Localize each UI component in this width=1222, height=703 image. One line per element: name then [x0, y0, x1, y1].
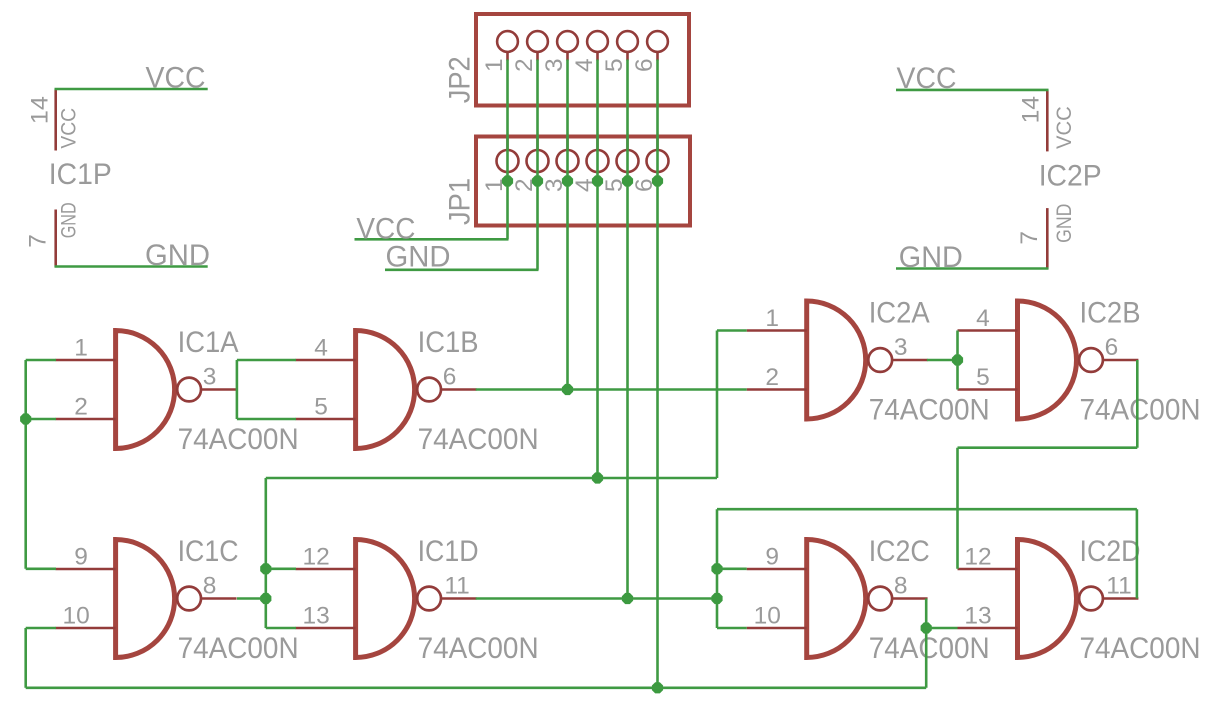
wire lower left rail vertical [24, 628, 27, 688]
svg-text:6: 6 [443, 364, 457, 391]
svg-text:7: 7 [25, 234, 52, 248]
connector JP2 pin 5 circle [617, 31, 638, 52]
junction on JP1 pin 2 [532, 175, 543, 186]
wire to IC1C pin 10 [26, 627, 56, 630]
wire IC2B output horizontal y=448 [958, 446, 1138, 449]
wire VCC net (IC1P) [55, 88, 208, 91]
svg-text:4: 4 [571, 58, 598, 72]
IC1D output bubble [417, 587, 441, 611]
junction on JP1 pin 5 [622, 175, 633, 186]
svg-text:GND: GND [1053, 204, 1076, 243]
IC1B output bubble [417, 378, 441, 402]
junction JP pin 6 on bottom net [652, 682, 663, 693]
connector JP2 pin 4 circle [587, 31, 608, 52]
junction IC2C pin 9 tap [711, 563, 722, 574]
IC1D pin 12 line [296, 568, 356, 571]
wire IC1C output lead [237, 597, 266, 600]
wire mid coupling vertical x=266 [264, 478, 267, 628]
svg-text:8: 8 [894, 573, 908, 600]
svg-text:7: 7 [1016, 231, 1043, 245]
connector JP2 pin 3 stub [566, 52, 569, 61]
wire to IC2C pin 9 [717, 567, 747, 570]
wire IC2C coupling vertical x=717 [716, 509, 719, 628]
svg-text:IC2C: IC2C [869, 535, 930, 568]
wire to IC1D pin 12 [266, 567, 296, 570]
svg-text:VCC: VCC [897, 62, 957, 95]
IC1B pin 4 line [296, 359, 356, 362]
IC1C output pin 8 line [202, 597, 237, 600]
wire IC2A pin 1 vertical [716, 331, 719, 479]
wire JP pin 2 vertical [536, 60, 539, 270]
connector JP2 pin 3 circle [557, 31, 578, 52]
junction IC1C output tap [260, 593, 271, 604]
svg-text:1: 1 [481, 58, 508, 72]
svg-text:74AC00N: 74AC00N [178, 423, 299, 456]
connector JP1 pin 3 stub [566, 139, 569, 152]
wire IC2D output vertical x=1137 [1136, 509, 1139, 598]
wire IC1D output to IC2C (long) [476, 597, 717, 600]
nand gate IC1B body [356, 331, 415, 449]
connector JP2 pin 2 circle [527, 31, 548, 52]
svg-text:3: 3 [541, 58, 568, 72]
IC1B output pin 6 line [442, 388, 477, 391]
wire VCC net (IC2P) [896, 89, 1049, 92]
nand gate IC1C body [116, 540, 175, 658]
IC1C pin 9 line [56, 568, 116, 571]
svg-text:74AC00N: 74AC00N [418, 632, 539, 665]
nand gate IC1D body [356, 540, 415, 658]
wire bottom net horizontal y=688 [26, 686, 927, 689]
connector JP2 pin 2 stub [536, 52, 539, 61]
junction on JP1 pin 3 [562, 175, 573, 186]
wire JP pin 6 vertical [656, 60, 659, 688]
svg-text:2: 2 [74, 394, 88, 421]
wire GND to JP1 pin 2 [385, 268, 539, 271]
svg-text:GND: GND [57, 202, 80, 238]
IC1B pin 5 line [296, 418, 356, 421]
connector JP2 outline [476, 14, 689, 106]
connector JP1 pin 6 circle [647, 150, 669, 172]
IC2D pin 12 line [958, 568, 1018, 571]
junction on JP1 pin 6 [652, 175, 663, 186]
svg-text:4: 4 [976, 305, 990, 332]
power symbol IC1P pin 14 (VCC) pin line [54, 89, 57, 150]
connector JP1 pin 5 stub [626, 139, 629, 152]
svg-text:74AC00N: 74AC00N [418, 423, 539, 456]
svg-text:12: 12 [964, 544, 991, 571]
svg-text:9: 9 [765, 544, 779, 571]
svg-text:IC2P: IC2P [1039, 160, 1102, 193]
connector JP1 pin 3 circle [557, 150, 579, 172]
svg-text:74AC00N: 74AC00N [869, 394, 990, 427]
connector JP2 pin 5 stub [626, 52, 629, 61]
wire to IC2A pin 1 [717, 329, 747, 332]
IC2C output bubble [868, 587, 892, 611]
junction JP pin 3 on IC1B output net [562, 384, 573, 395]
svg-text:GND: GND [899, 241, 963, 274]
svg-text:VCC: VCC [57, 108, 80, 149]
wire GND net (IC1P) [55, 265, 208, 268]
svg-text:14: 14 [27, 96, 54, 124]
junction on JP1 pin 1 [502, 175, 513, 186]
wire IC1B output to IC2A pin 2 (long) [476, 388, 747, 391]
wire IC2B output vertical x=1137 [1136, 360, 1139, 448]
power symbol IC2P pin 14 (VCC) pin line [1046, 90, 1049, 152]
wire JP pin 4 vertical [596, 60, 599, 479]
junction IC2D pin 13 tap [921, 622, 932, 633]
wire cross horizontal y=477 [266, 477, 717, 480]
connector JP2 pin 4 stub [596, 52, 599, 61]
svg-text:3: 3 [894, 334, 908, 361]
wire IC2D output horizontal y=511 [717, 508, 1137, 511]
IC2B pin 4 line [958, 329, 1018, 332]
IC1C pin 10 line [56, 627, 116, 630]
IC2A pin 1 line [747, 329, 807, 332]
svg-text:IC1A: IC1A [178, 326, 239, 359]
power symbol IC2P pin 7 (GND) pin line [1046, 208, 1049, 269]
svg-text:2: 2 [765, 364, 779, 391]
IC1A output bubble [177, 378, 201, 402]
svg-text:5: 5 [976, 364, 990, 391]
wire JP pin 3 vertical [566, 60, 569, 390]
svg-text:VCC: VCC [1053, 106, 1076, 149]
svg-text:3: 3 [203, 364, 217, 391]
svg-text:74AC00N: 74AC00N [178, 632, 299, 665]
wire GND net (IC2P) [896, 267, 1049, 270]
connector JP2 pin 1 stub [506, 52, 509, 61]
svg-text:8: 8 [203, 573, 217, 600]
IC1D output pin 11 line [442, 597, 477, 600]
svg-text:14: 14 [1018, 96, 1045, 123]
IC2B pin 5 line [958, 388, 1018, 391]
IC2D output bubble [1079, 587, 1103, 611]
wire JP pin 5 vertical [626, 60, 629, 599]
svg-text:JP1: JP1 [444, 178, 477, 225]
connector JP2 pin 1 circle [497, 31, 518, 52]
svg-text:JP2: JP2 [444, 56, 477, 103]
connector JP1 outline [476, 137, 690, 226]
svg-text:5: 5 [314, 394, 328, 421]
wire to IC1C pin 9 [26, 567, 56, 570]
nand gate IC2C body [807, 540, 866, 658]
IC2A output pin 3 line [893, 359, 928, 362]
IC2C pin 10 line [747, 627, 807, 630]
power symbol IC1P pin 7 (GND) pin line [54, 210, 57, 268]
IC2B output bubble [1079, 348, 1103, 372]
svg-text:6: 6 [1105, 334, 1119, 361]
wire VCC to JP1 pin 1 [355, 238, 509, 241]
svg-text:13: 13 [302, 603, 329, 630]
wire IC2A out vertical to IC2B inputs [956, 331, 959, 390]
connector JP1 pin 1 circle [497, 150, 519, 172]
svg-text:IC2A: IC2A [869, 297, 930, 330]
svg-text:VCC: VCC [146, 62, 206, 95]
IC2A pin 2 line [747, 388, 807, 391]
svg-text:10: 10 [754, 603, 781, 630]
svg-text:6: 6 [631, 58, 658, 72]
IC2C pin 9 line [747, 568, 807, 571]
connector JP2 pin 6 circle [647, 31, 668, 52]
connector JP2 pin 6 stub [656, 52, 659, 61]
svg-text:IC1C: IC1C [178, 535, 239, 568]
wire to IC1B pin 4 [237, 359, 296, 362]
wire to IC1A pin 2 [26, 418, 56, 421]
wire to IC2D pin 13 [926, 627, 957, 630]
IC2C output pin 8 line [893, 597, 928, 600]
IC2D output pin 11 line [1103, 597, 1138, 600]
svg-text:74AC00N: 74AC00N [1080, 632, 1201, 665]
connector JP1 pin 4 stub [596, 139, 599, 152]
IC1C output bubble [177, 587, 201, 611]
svg-text:IC2B: IC2B [1080, 297, 1141, 330]
nand gate IC2A body [807, 301, 866, 419]
svg-text:74AC00N: 74AC00N [1080, 394, 1201, 427]
svg-text:IC1P: IC1P [49, 158, 112, 191]
svg-text:13: 13 [964, 603, 991, 630]
svg-text:GND: GND [386, 240, 451, 273]
junction JP pin 5 on IC1D output net [622, 593, 633, 604]
connector JP1 pin 2 circle [527, 150, 549, 172]
wire to IC1D pin 13 [266, 627, 296, 630]
IC2D pin 13 line [958, 627, 1018, 630]
connector JP1 pin 4 circle [587, 150, 609, 172]
nand gate IC2B body [1018, 301, 1077, 419]
svg-text:74AC00N: 74AC00N [869, 632, 990, 665]
connector JP1 pin 1 stub [506, 139, 509, 152]
junction JP pin 4 on cross net [592, 472, 603, 483]
wire to IC1B pin 5 [237, 418, 296, 421]
junction IC1D pin 12 tap [260, 563, 271, 574]
svg-text:GND: GND [145, 239, 210, 272]
junction on IC1A pin 2 wire [20, 413, 31, 424]
svg-text:11: 11 [1106, 573, 1131, 600]
junction IC2A output [952, 354, 963, 365]
svg-text:5: 5 [601, 58, 628, 72]
svg-text:1: 1 [765, 305, 779, 332]
svg-text:12: 12 [302, 544, 329, 571]
wire IC2C output vertical x=926 [925, 599, 928, 688]
connector JP1 pin 6 stub [656, 139, 659, 152]
nand gate IC1A body [116, 331, 175, 449]
svg-text:11: 11 [444, 573, 469, 600]
wire IC2A output lead [927, 359, 958, 362]
svg-text:IC2D: IC2D [1080, 535, 1141, 568]
wire IC1A out vertical to IC1B inputs [236, 360, 239, 419]
junction on JP1 pin 4 [592, 175, 603, 186]
wire JP pin 1 vertical [506, 60, 509, 240]
connector JP1 pin 2 stub [536, 139, 539, 152]
svg-text:IC1D: IC1D [418, 535, 479, 568]
wire to IC2C pin 10 [717, 627, 747, 630]
IC1A output pin 3 line [202, 388, 237, 391]
IC2B output pin 6 line [1103, 359, 1138, 362]
svg-text:1: 1 [74, 335, 88, 362]
svg-text:4: 4 [314, 335, 328, 362]
nand gate IC2D body [1018, 540, 1077, 658]
IC1A pin 2 line [56, 418, 116, 421]
svg-text:IC1B: IC1B [418, 326, 479, 359]
wire IC2B output vertical to IC2D pin 12 [956, 448, 959, 569]
connector JP1 pin 5 circle [617, 150, 639, 172]
svg-text:10: 10 [62, 603, 89, 630]
junction IC1D output net end [711, 593, 722, 604]
IC1A pin 1 line [56, 359, 116, 362]
IC2A output bubble [868, 348, 892, 372]
IC1D pin 13 line [296, 627, 356, 630]
wire left rail vertical (IC1A.1/IC1A.2/IC1C.9 net) [24, 360, 27, 569]
svg-text:2: 2 [511, 58, 538, 72]
svg-text:9: 9 [74, 544, 88, 571]
wire to IC1A pin 1 [26, 359, 56, 362]
